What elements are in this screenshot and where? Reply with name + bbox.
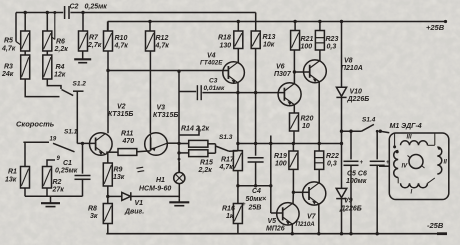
wire V5 emitter to rail (291, 223, 294, 235)
svg-text:R16: R16 (222, 206, 235, 213)
svg-text:V10: V10 (350, 89, 363, 96)
svg-text:П210А: П210А (296, 221, 316, 228)
svg-text:13к: 13к (113, 174, 125, 181)
resistor R3 (1, 51, 30, 79)
wire divider mid node (238, 171, 271, 186)
resistor R10 (104, 22, 129, 52)
node bus output column (340, 142, 343, 145)
node R21 top (293, 20, 296, 23)
svg-text:С3: С3 (209, 78, 218, 85)
switch S1.4 (362, 117, 382, 133)
svg-text:R12: R12 (156, 35, 169, 42)
node V2 collector / V4 base wire tap (106, 69, 109, 72)
svg-text:R9: R9 (114, 167, 123, 174)
svg-text:470: 470 (122, 138, 135, 145)
svg-text:R20: R20 (301, 116, 314, 123)
transistor V6 (274, 64, 301, 106)
svg-text:R1: R1 (8, 169, 17, 176)
wire top rail segment with C2 (left part, R5/R6 node) (16, 13, 63, 45)
svg-text:IV: IV (402, 164, 409, 170)
svg-text:19: 19 (50, 137, 57, 143)
switch S1.3 (216, 134, 238, 151)
ground under R2 (41, 196, 60, 206)
svg-text:S1.3: S1.3 (219, 134, 233, 141)
wire feedback column (178, 71, 180, 172)
svg-text:4,7к: 4,7к (155, 43, 170, 50)
diode V10 (336, 87, 369, 103)
svg-text:S1.4: S1.4 (362, 117, 376, 124)
wire output column upper (341, 22, 343, 88)
svg-text:С1: С1 (63, 160, 72, 167)
svg-text:0,01мк: 0,01мк (204, 85, 225, 92)
resistor R15 (179, 150, 216, 174)
node bus C4 (254, 142, 257, 145)
resistor R12 (146, 22, 170, 52)
wire R8 to -25V rail (107, 224, 109, 234)
svg-text:С5 С6: С5 С6 (347, 171, 367, 178)
svg-text:V5: V5 (268, 218, 277, 225)
transistor V3 (145, 105, 179, 156)
capacitor C5 (344, 131, 364, 235)
wire lamp to ground (178, 184, 180, 199)
svg-text:4,7к: 4,7к (114, 43, 129, 50)
label Скорость (16, 120, 55, 129)
wire V7 base (293, 191, 308, 193)
wire R18 to V4 collector (237, 49, 239, 63)
wire V6 collector to R21 (293, 50, 295, 84)
svg-text:П210А: П210А (341, 65, 363, 72)
svg-text:R17: R17 (221, 157, 235, 164)
svg-text:100мк: 100мк (346, 178, 367, 185)
svg-text:2,2к: 2,2к (54, 46, 69, 53)
svg-text:S1.1: S1.1 (64, 129, 78, 136)
svg-text:4,7к: 4,7к (1, 46, 16, 53)
resistor R19 (274, 144, 298, 170)
node C4 bottom (254, 184, 257, 187)
svg-text:50мк×: 50мк× (246, 196, 267, 203)
svg-text:R2: R2 (53, 179, 62, 186)
switch S1.2 arm (62, 81, 87, 96)
motor winding II (right) (437, 147, 447, 174)
svg-text:10: 10 (302, 123, 310, 130)
transistor V8 (304, 58, 363, 83)
switch S1.1 (23, 129, 77, 163)
resistor R11 (118, 131, 137, 156)
svg-text:0,25мк: 0,25мк (55, 168, 78, 175)
svg-text:25В: 25В (248, 205, 262, 212)
wire top rail right of C2 to R13 drop (70, 13, 255, 32)
label C5 C6 (346, 171, 367, 186)
wire S1.1 to V2 base (77, 142, 95, 144)
wire V5 collector (292, 192, 294, 204)
svg-text:П307: П307 (274, 71, 292, 78)
wire small loop under C3 (179, 127, 199, 136)
wire V7 emitter to rail (317, 204, 320, 236)
resistor R20 (290, 113, 314, 144)
svg-text:R14 2,2к: R14 2,2к (181, 126, 210, 133)
svg-text:R13: R13 (263, 34, 276, 41)
node R13 bottom on C3 wire (254, 91, 257, 94)
wire V6 emitter to R20 (293, 105, 295, 114)
wire V3 emitter to node (167, 142, 179, 144)
svg-text:МП26: МП26 (266, 226, 285, 233)
resistor R17 (219, 144, 243, 172)
svg-text:С2: С2 (70, 4, 79, 11)
resistor R2 (43, 160, 65, 194)
svg-text:R19: R19 (274, 153, 287, 160)
wire R11 to V3 base (137, 150, 151, 153)
diode V1 (108, 192, 144, 215)
svg-text:КТ315Б: КТ315Б (108, 111, 133, 118)
svg-text:R8: R8 (88, 206, 97, 213)
node V3 emitter / R14 (177, 142, 180, 145)
motor M1 frame (389, 123, 449, 200)
node R5 top (24, 11, 27, 14)
resistor R23 (315, 22, 338, 51)
svg-text:М1 ЭДГ-4: М1 ЭДГ-4 (390, 123, 422, 130)
svg-text:R23: R23 (326, 36, 339, 43)
motor winding IV (left) (394, 151, 408, 178)
wire R3 bottom to S1.2 (25, 79, 59, 97)
motor winding I (bottom) (401, 183, 428, 195)
svg-text:II: II (444, 160, 448, 166)
svg-text:НСМ-9-60: НСМ-9-60 (139, 186, 171, 193)
resistor R7 (79, 13, 102, 52)
node motor feed (340, 130, 343, 133)
wire V4 emitter down (237, 82, 239, 92)
svg-text:-25В: -25В (427, 221, 444, 230)
wire S1.4 to motor (380, 131, 389, 133)
wire V8 base (294, 71, 309, 73)
svg-text:R10: R10 (115, 35, 128, 42)
capacitor C2 (65, 4, 108, 20)
node R7 top (81, 11, 84, 14)
wire V5 base column (269, 136, 283, 214)
motor internal joints (393, 134, 441, 184)
svg-text:R6: R6 (56, 39, 65, 46)
wire V4 base from V2 collector (108, 70, 228, 72)
wire V8 emitter to bus (318, 82, 320, 144)
svg-text:R15: R15 (200, 160, 213, 167)
squiggle mark (137, 167, 145, 172)
wire R14/R15 right join (215, 144, 217, 153)
svg-text:Двиг.: Двиг. (124, 209, 144, 216)
svg-text:R21: R21 (301, 36, 314, 43)
svg-text:R11: R11 (121, 131, 133, 138)
resistor R5 (1, 13, 30, 53)
svg-text:R22: R22 (326, 153, 339, 160)
wire C3 to V6 base (202, 92, 284, 94)
wire R19 bottom to V7 base node (292, 169, 294, 192)
capacitor C6 (370, 130, 390, 235)
resistor R16 (222, 186, 242, 234)
label +25V (426, 20, 447, 32)
resistor R13 (251, 31, 275, 49)
svg-text:10к: 10к (263, 42, 275, 49)
wire C6 to motor terminal (379, 165, 389, 167)
node R15 tap (177, 151, 180, 160)
wire S1.2 common down to S1.1 (73, 91, 84, 143)
node R9/R8/V1 (106, 195, 109, 198)
capacitor C4 (242, 144, 266, 212)
wire V2 collector to R10 (107, 51, 109, 133)
node R12 top (148, 20, 151, 23)
wire V3 collector to R12 (149, 51, 151, 133)
resistor R21 (291, 22, 314, 51)
svg-text:27к: 27к (52, 187, 65, 194)
wire V1 to lamp column (131, 195, 180, 197)
svg-text:0,3: 0,3 (327, 161, 337, 168)
svg-text:0,3: 0,3 (327, 44, 337, 51)
svg-text:0,25мк: 0,25мк (85, 4, 108, 11)
wire output column mid (341, 97, 343, 188)
svg-text:Скорость: Скорость (16, 120, 55, 129)
wire bus from S1.3 to output column (238, 143, 342, 145)
node R18 top (237, 20, 240, 23)
wire R23 to V8 collector (319, 50, 321, 61)
ground under lamp (169, 199, 189, 206)
svg-text:V3: V3 (157, 105, 166, 112)
wire R13 bottom column (255, 49, 257, 144)
node bus V8 emitter (318, 142, 321, 145)
ground under R7 (74, 51, 91, 63)
resistor R9 (103, 152, 124, 186)
svg-text:V1: V1 (135, 200, 144, 207)
svg-text:R3: R3 (4, 64, 13, 71)
svg-text:R18: R18 (218, 35, 231, 42)
node top of feedback column (177, 70, 180, 73)
node divider mid (236, 184, 239, 187)
svg-text:24к: 24к (1, 71, 14, 78)
node bus R17 (236, 142, 239, 145)
node bus R19 (292, 142, 295, 145)
svg-text:III: III (407, 134, 412, 140)
wire R22 to V7 collector (318, 169, 320, 183)
resistor R22 (315, 144, 339, 170)
node C1 top (81, 142, 84, 145)
svg-text:V7: V7 (307, 214, 317, 221)
svg-text:V4: V4 (207, 53, 216, 60)
node R6 top (46, 11, 49, 14)
node C5 top (349, 130, 352, 133)
svg-text:12к: 12к (54, 72, 66, 79)
svg-text:2,2к: 2,2к (198, 167, 213, 174)
node V4 emitter on C3 wire (236, 91, 239, 94)
svg-text:V6: V6 (276, 64, 285, 71)
svg-text:S1.2: S1.2 (73, 81, 87, 88)
resistor R8 (88, 196, 112, 223)
wire stub to C3 left plate (179, 91, 196, 93)
svg-text:4,7к: 4,7к (219, 164, 234, 171)
node V7 base / V5 collector (292, 191, 295, 194)
svg-text:100: 100 (275, 161, 287, 168)
wire R4 bottom to S1.2 contact (47, 79, 61, 89)
transistor V5 (266, 203, 299, 233)
svg-text:V8: V8 (344, 58, 353, 65)
resistor R18 (218, 22, 243, 50)
label -25V (427, 221, 447, 234)
wire R9 bottom (107, 186, 109, 196)
svg-text:КТ315Б: КТ315Б (153, 112, 178, 119)
svg-text:Н1: Н1 (156, 177, 165, 184)
resistor R4 (43, 51, 66, 79)
svg-text:1к: 1к (226, 213, 234, 220)
node main output branch on +25V rail (340, 20, 343, 23)
motor winding III (top) (401, 134, 428, 145)
svg-text:ГТ402Е: ГТ402Е (200, 60, 223, 67)
wire V4 emitter node to R17 (237, 93, 239, 144)
node bus V5 base column (269, 142, 272, 145)
transistor V2 (90, 104, 134, 156)
svg-text:R4: R4 (56, 64, 65, 71)
svg-text:V2: V2 (117, 104, 126, 111)
svg-text:+25В: +25В (426, 23, 445, 32)
diode V9 (336, 188, 362, 212)
wire output column lower (340, 199, 343, 236)
wire motor feed (342, 130, 362, 132)
svg-text:100: 100 (301, 44, 313, 51)
wire +25V rail (108, 22, 446, 32)
wire V2 emitter to R11 (106, 151, 118, 153)
lamp H1 (139, 162, 185, 193)
svg-text:130: 130 (220, 43, 232, 50)
wire R1/R2/C1 bottoms (25, 188, 83, 196)
svg-text:3к: 3к (90, 213, 98, 220)
node V8 base tap (293, 70, 296, 73)
svg-text:2,7к: 2,7к (87, 42, 102, 49)
motor commutator circle (408, 155, 425, 169)
resistor R1 (speed pot) (5, 142, 30, 188)
svg-text:13к: 13к (5, 177, 17, 184)
capacitor C3 (197, 78, 225, 101)
node R23 top (318, 20, 321, 23)
wire -25V bottom rail (106, 233, 447, 235)
resistor R14 (179, 126, 216, 148)
transistor V7 (296, 182, 326, 228)
svg-text:С4: С4 (252, 188, 261, 195)
capacitor C1 (55, 143, 91, 196)
svg-text:Д226Б: Д226Б (347, 96, 370, 103)
svg-text:R5: R5 (4, 38, 13, 45)
svg-text:+: + (360, 160, 364, 166)
transistor V4 (200, 53, 244, 84)
resistor R6 (43, 11, 68, 53)
svg-text:R7: R7 (89, 35, 99, 42)
